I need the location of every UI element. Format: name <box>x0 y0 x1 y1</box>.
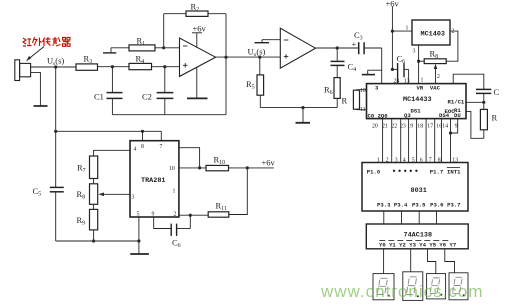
wire R9 bottom <box>93 230 95 241</box>
svg-text:INT1: INT1 <box>447 169 461 176</box>
wire MC14433 pin18 to 8031 pin6 <box>425 119 427 163</box>
svg-text:P3.7: P3.7 <box>447 202 460 209</box>
label 红外传感器 (infrared sensor, red) <box>23 37 70 46</box>
svg-text:20: 20 <box>372 124 378 130</box>
svg-text:19: 19 <box>407 124 413 130</box>
wire MC14433 pin23 to 8031 pin4 <box>408 119 410 163</box>
capacitor C6 (TRA281) <box>171 224 190 236</box>
svg-text:DU: DU <box>454 112 461 119</box>
wire 8031 P3.5 to 74AC138 <box>418 211 420 224</box>
wire R5/R6 ground rail <box>260 107 337 109</box>
wire R3 to R4 <box>98 66 130 68</box>
wire MC14433 pin17 to 8031 pin7 <box>434 119 436 163</box>
wire TRA281 pin2 <box>179 214 208 216</box>
ground (VX input) <box>362 70 382 74</box>
wire 8031 P3.3 to 74AC138 <box>383 211 385 224</box>
node R8 left <box>417 60 420 63</box>
wire MC1403 pin2 to R8 <box>446 31 458 61</box>
capacitor C1 <box>107 67 123 115</box>
wire TRA281 pin10 <box>179 167 206 169</box>
wire TRA281 pin5 to ground <box>138 217 140 254</box>
svg-text:18: 18 <box>417 124 423 130</box>
svg-text:R1/C1: R1/C1 <box>448 98 465 105</box>
svg-text:Us(s): Us(s) <box>47 56 64 68</box>
node pin9/pin14 junction <box>449 131 452 134</box>
svg-text:9: 9 <box>152 211 155 217</box>
svg-text:P1.0: P1.0 <box>367 169 381 176</box>
wire op-amp2 output to C3 <box>316 47 359 49</box>
svg-text:4: 4 <box>403 158 406 164</box>
svg-text:P3.5: P3.5 <box>412 202 426 209</box>
svg-text:11: 11 <box>360 107 366 113</box>
svg-text:7: 7 <box>160 144 163 150</box>
resistor R3 <box>76 64 98 70</box>
svg-text:14: 14 <box>442 124 448 130</box>
svg-text:Q3: Q3 <box>404 112 411 119</box>
wire Y5 to display DS3 <box>428 249 436 274</box>
display DS2 <box>403 272 423 301</box>
wire pin2 to C6 <box>189 215 191 228</box>
wire R7-R8 <box>93 179 95 184</box>
node C1 tap <box>111 65 114 68</box>
svg-text:DS1: DS1 <box>411 108 422 115</box>
svg-text:3: 3 <box>413 49 416 55</box>
svg-text:R: R <box>342 96 348 106</box>
wire MC14433 pin22 to 8031 pin3 <box>400 119 402 163</box>
ground (sensor) <box>34 105 48 107</box>
svg-text:MC14433: MC14433 <box>403 96 432 104</box>
svg-text:3: 3 <box>132 195 135 201</box>
IC MC14433 <box>367 84 467 119</box>
op-amp U1 <box>180 38 216 76</box>
wire Y3 to display DS2 <box>410 249 412 272</box>
svg-text:3: 3 <box>395 158 398 164</box>
wire pin10 loop to pin6 <box>179 148 200 168</box>
svg-text:5: 5 <box>412 158 415 164</box>
svg-text:2: 2 <box>386 158 389 164</box>
node Uo / R5 tap <box>258 56 261 59</box>
wire op-amp1 output to op-amp2 <box>216 56 281 58</box>
IC TRA281 <box>130 141 179 217</box>
wire R1 to op-amp - input <box>155 47 180 49</box>
svg-text:P3.4: P3.4 <box>394 202 408 209</box>
svg-text:+6v: +6v <box>262 158 276 168</box>
resistor R7 <box>90 156 98 179</box>
node C2 tap <box>163 65 166 68</box>
svg-text:C2: C2 <box>142 92 152 102</box>
wire Y0 to display DS1 <box>383 249 385 274</box>
wire TRA281 pin9 <box>154 217 171 229</box>
wire Y7 to display DS4 <box>445 249 455 273</box>
wire pin8 stub <box>142 131 144 140</box>
node MC1403 pin1 tap <box>391 30 394 33</box>
svg-text:Y0 Y1 Y2 Y3 Y4 Y5 Y6 Y7: Y0 Y1 Y2 Y3 Y4 Y5 Y6 Y7 <box>379 241 456 248</box>
text labels layer <box>33 0 500 249</box>
wire MC14433 pin16 to 8031 pin8 <box>441 119 443 163</box>
infrared sensor element <box>15 60 31 81</box>
svg-text:17: 17 <box>427 124 433 130</box>
wire MC14433 pin14 to 8031 pin13 <box>450 119 452 163</box>
wire MC14433 pin20 to 8031 pin1 <box>382 119 384 163</box>
svg-text:TRA281: TRA281 <box>141 177 165 185</box>
svg-text:8: 8 <box>141 144 144 150</box>
wire to R1 <box>111 47 129 49</box>
display DS1 <box>373 274 394 300</box>
svg-text:1: 1 <box>406 26 409 32</box>
svg-text:13: 13 <box>452 158 458 164</box>
svg-text:8: 8 <box>438 158 441 164</box>
svg-text:C: C <box>494 87 500 97</box>
op-amp U2 <box>280 28 315 68</box>
svg-text:5: 5 <box>137 211 140 217</box>
wire 8031 P3.4 to 74AC138 <box>401 211 403 224</box>
svg-text:+6v: +6v <box>386 0 400 9</box>
wire C3 to MC14433 pin3 <box>381 48 383 84</box>
svg-text:24: 24 <box>394 79 400 85</box>
wire bottom rail <box>56 240 139 242</box>
wire sensor output <box>31 66 76 68</box>
svg-text:2: 2 <box>437 74 440 80</box>
svg-text:21: 21 <box>382 124 388 130</box>
wire R1/C1 pin <box>466 101 484 103</box>
resistor R (integrator) <box>480 102 487 138</box>
potentiometer R8 (reference adjust) <box>424 59 446 64</box>
capacitor C (integrator) <box>476 89 491 102</box>
resistor R (pins 10-11) <box>353 90 366 110</box>
wire MC1403 pin1 <box>392 30 412 32</box>
svg-text:C0 2Q0: C0 2Q0 <box>368 113 389 120</box>
resistor R2 <box>164 11 226 48</box>
svg-text:R: R <box>492 113 498 123</box>
node pin2 junction <box>189 214 192 217</box>
svg-text:www.cntronics.com: www.cntronics.com <box>320 282 483 301</box>
svg-text:13: 13 <box>404 79 410 85</box>
wire pin7 stub <box>160 131 162 140</box>
wire C1/C2 bottom rail <box>112 114 226 116</box>
wire R4 to op-amp + input <box>152 66 180 68</box>
svg-text:2: 2 <box>452 29 455 35</box>
wire MC14433 pin9 join <box>451 119 458 133</box>
svg-text:74AC138: 74AC138 <box>404 232 433 240</box>
IC MC1403 <box>412 20 450 45</box>
node C4 tap <box>336 46 339 49</box>
svg-text:P3.6: P3.6 <box>430 202 444 209</box>
sensor arrow <box>26 47 44 62</box>
display DS4 <box>449 273 468 300</box>
svg-text:10: 10 <box>169 166 175 172</box>
capacitor C5 <box>50 187 64 241</box>
ground (op-amp U1) <box>187 67 208 99</box>
resistor R10 <box>206 165 229 170</box>
svg-text:6: 6 <box>420 158 423 164</box>
wire MC14433 pin19 to 8031 pin5 <box>416 119 418 163</box>
resistor R5 <box>257 57 264 108</box>
wire R10 to +6v <box>229 167 274 169</box>
capacitor C4 <box>331 48 345 78</box>
potentiometer R8 <box>90 184 98 205</box>
svg-text:Uo(s): Uo(s) <box>248 47 266 59</box>
node R9 bottom <box>92 239 95 242</box>
node pin10 junction <box>198 166 201 169</box>
svg-text:8031: 8031 <box>411 187 427 195</box>
display DS3 <box>427 274 446 299</box>
ground (op-amp U2 - input) <box>255 40 281 43</box>
ground (analog rail) <box>296 108 311 123</box>
resistor R6 <box>334 78 340 108</box>
ground (R1 input bias) <box>103 48 116 53</box>
node pin8 tap <box>141 130 144 133</box>
svg-text:1: 1 <box>377 158 380 164</box>
wire R8-R9 <box>93 204 95 209</box>
wire MC14433 top to C (integrator) <box>453 74 484 89</box>
wire 8031 P3.6 to 74AC138 <box>436 211 438 224</box>
svg-text:1: 1 <box>173 189 176 195</box>
wiper arrow R8 to TRA281 pin3 <box>98 193 130 197</box>
+6v supply (op-amp U1) <box>192 33 202 48</box>
svg-text:VR VAC: VR VAC <box>417 85 441 92</box>
capacitor C2 <box>157 67 174 115</box>
svg-text:22: 22 <box>391 124 397 130</box>
wire R7 top to TRA281 pin4 <box>94 150 130 156</box>
capacitor C3 <box>359 42 382 54</box>
svg-text:2: 2 <box>174 211 177 217</box>
svg-text:+6v: +6v <box>193 24 207 34</box>
wiper arrow to MC14433 pin2 <box>434 64 438 84</box>
node ground rail <box>301 106 304 109</box>
wire R2 right to output and down to bottom rail <box>225 14 227 115</box>
ground (TRA281) <box>130 253 149 255</box>
node op-amp1 output <box>224 56 227 59</box>
svg-text:4: 4 <box>134 147 137 153</box>
svg-text:MC1403: MC1403 <box>421 31 445 39</box>
wire R bottom to R1 pin <box>466 112 484 139</box>
resistor R4 <box>129 63 152 69</box>
svg-text:1: 1 <box>421 78 424 84</box>
node C/R junction <box>482 101 485 104</box>
node R2 feedback junction <box>162 46 165 49</box>
svg-text:23: 23 <box>400 124 406 130</box>
overline INT1 <box>447 167 460 169</box>
+6v supply rail (top right) <box>391 7 393 70</box>
IC 8031 <box>362 163 468 212</box>
resistor R11 <box>208 212 229 217</box>
svg-text:10: 10 <box>360 88 366 94</box>
wire left rail from Us node down <box>55 67 57 187</box>
svg-text:9: 9 <box>455 124 458 130</box>
node pin5 rail <box>137 239 140 242</box>
wire top rail to TRA281 pins 8,7 <box>56 130 162 132</box>
node C6 tap <box>391 68 394 71</box>
resistor R1 <box>129 45 155 51</box>
svg-text:7: 7 <box>429 158 432 164</box>
wire R8 left lead <box>419 60 425 62</box>
wire R11 to +6v rail <box>229 168 248 215</box>
node R10/R11 +6v junction <box>246 166 249 169</box>
svg-text:+: + <box>352 39 357 49</box>
svg-text:C1: C1 <box>94 92 104 102</box>
dots P1.x <box>393 170 418 172</box>
node top rail corner <box>54 130 57 133</box>
node Us <box>54 65 57 68</box>
IC 74AC138 <box>366 224 468 249</box>
svg-text:P1.7: P1.7 <box>430 169 443 176</box>
wire sensor to ground <box>31 72 41 105</box>
overlines Y0-Y7 <box>379 240 448 242</box>
wire MC14433 pin21 to 8031 pin2 <box>391 119 393 163</box>
capacitor C6 (reference) <box>392 63 408 84</box>
svg-text:P3.3: P3.3 <box>377 202 391 209</box>
wire MC1403 pin3 to MC14433 pin1 <box>418 45 420 84</box>
resistor R9 <box>90 209 98 230</box>
